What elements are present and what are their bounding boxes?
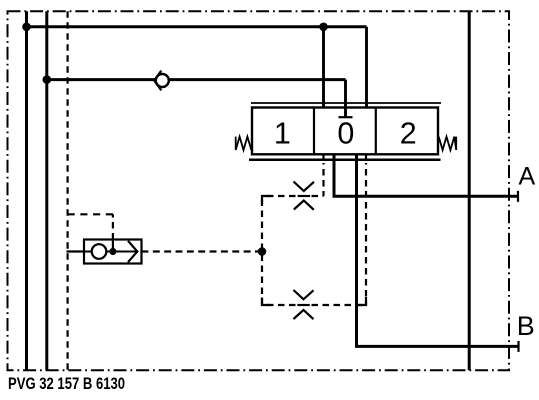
svg-text:B: B: [517, 311, 535, 341]
wire: shuttle tap up (solid inside box): [112, 240, 114, 252]
orifice symbol upper (opposed chevrons): [294, 182, 315, 210]
wire: vertical drop to valve port (right): [365, 27, 368, 108]
LS dashed wire: vertical through junction: [261, 196, 263, 305]
LS dashed wire: upper orifice line (right piece): [312, 195, 324, 197]
right spring: [439, 137, 457, 150]
check valve V1: [154, 71, 169, 91]
valve spool bottom rail: [249, 159, 441, 162]
plugged port symbol (T bar) in position 0: [339, 116, 353, 118]
pilot dashed branch from shuttle to LS rail: [112, 214, 114, 239]
wire: pilot drop into spool (to plugged port): [344, 80, 347, 118]
shuttle valve body: [84, 240, 142, 264]
junction dot (pump line / top supply): [22, 23, 31, 32]
wire: top supply line to valve: [27, 25, 367, 28]
junction dot (top supply branch): [319, 23, 328, 32]
LS drain rail (left dashed vertical wire): [66, 11, 68, 370]
wire: LS stub below valve (left, solid): [322, 154, 324, 161]
LS dashed wire: drop from valve to upper orifice level: [322, 163, 324, 196]
spool position divider 1|0: [313, 108, 315, 155]
svg-text:1: 1: [274, 117, 291, 151]
orifice symbol upper: center tick: [298, 195, 311, 197]
port A end tick: [517, 191, 519, 202]
LS dashed line: shuttle valve to junction: [142, 250, 263, 252]
shuttle valve internal flow line: [84, 251, 137, 253]
junction dot (LS network): [258, 247, 267, 256]
pump supply line P (left vertical wire 1): [25, 11, 28, 370]
wire: vertical drop to valve port (left): [322, 27, 325, 108]
valve spool top rail: [251, 102, 441, 104]
svg-text:PVG 32 157 B 6130: PVG 32 157 B 6130: [8, 374, 125, 393]
LS dashed wire: lower orifice line (right piece): [312, 304, 367, 306]
svg-text:0: 0: [337, 117, 354, 151]
svg-text:A: A: [519, 163, 536, 191]
left spring: [236, 137, 252, 150]
LS dashed wire: upper orifice line (left piece): [262, 195, 296, 197]
valve envelope (3-position spool body): [252, 108, 438, 155]
wire: pilot line through check valve: [47, 78, 346, 81]
pilot supply line (left vertical wire 2): [45, 11, 48, 370]
spool position divider 0|2: [375, 108, 377, 155]
orifice symbol lower: center tick: [297, 304, 310, 306]
junction dot (pilot line tap): [43, 75, 52, 84]
tank return line T (right vertical wire): [468, 11, 471, 370]
LS dashed wire: lower orifice line (left piece): [262, 304, 296, 306]
shuttle valve seat chevron: [128, 241, 137, 262]
shuttle valve inlet stub (to LS rail): [67, 250, 85, 252]
dashed corner piece (lower right of LS loop): [358, 297, 366, 305]
dashed corner piece (lower left of LS loop): [262, 298, 271, 306]
dashed corner piece (upper left of LS loop): [262, 196, 271, 204]
shuttle valve outlet node dot: [109, 248, 116, 255]
port B end tick: [517, 341, 519, 352]
svg-text:2: 2: [400, 117, 417, 151]
orifice symbol lower (opposed chevrons): [294, 290, 314, 319]
wire: work port B (solid elbow from valve to B): [357, 154, 519, 346]
LS dashed wire: riser back to valve: [365, 163, 367, 305]
wire: LS stub below valve (right, solid): [365, 154, 367, 161]
shuttle valve ball: [92, 244, 107, 259]
wire: work port A (solid elbow from valve to A): [334, 154, 518, 196]
